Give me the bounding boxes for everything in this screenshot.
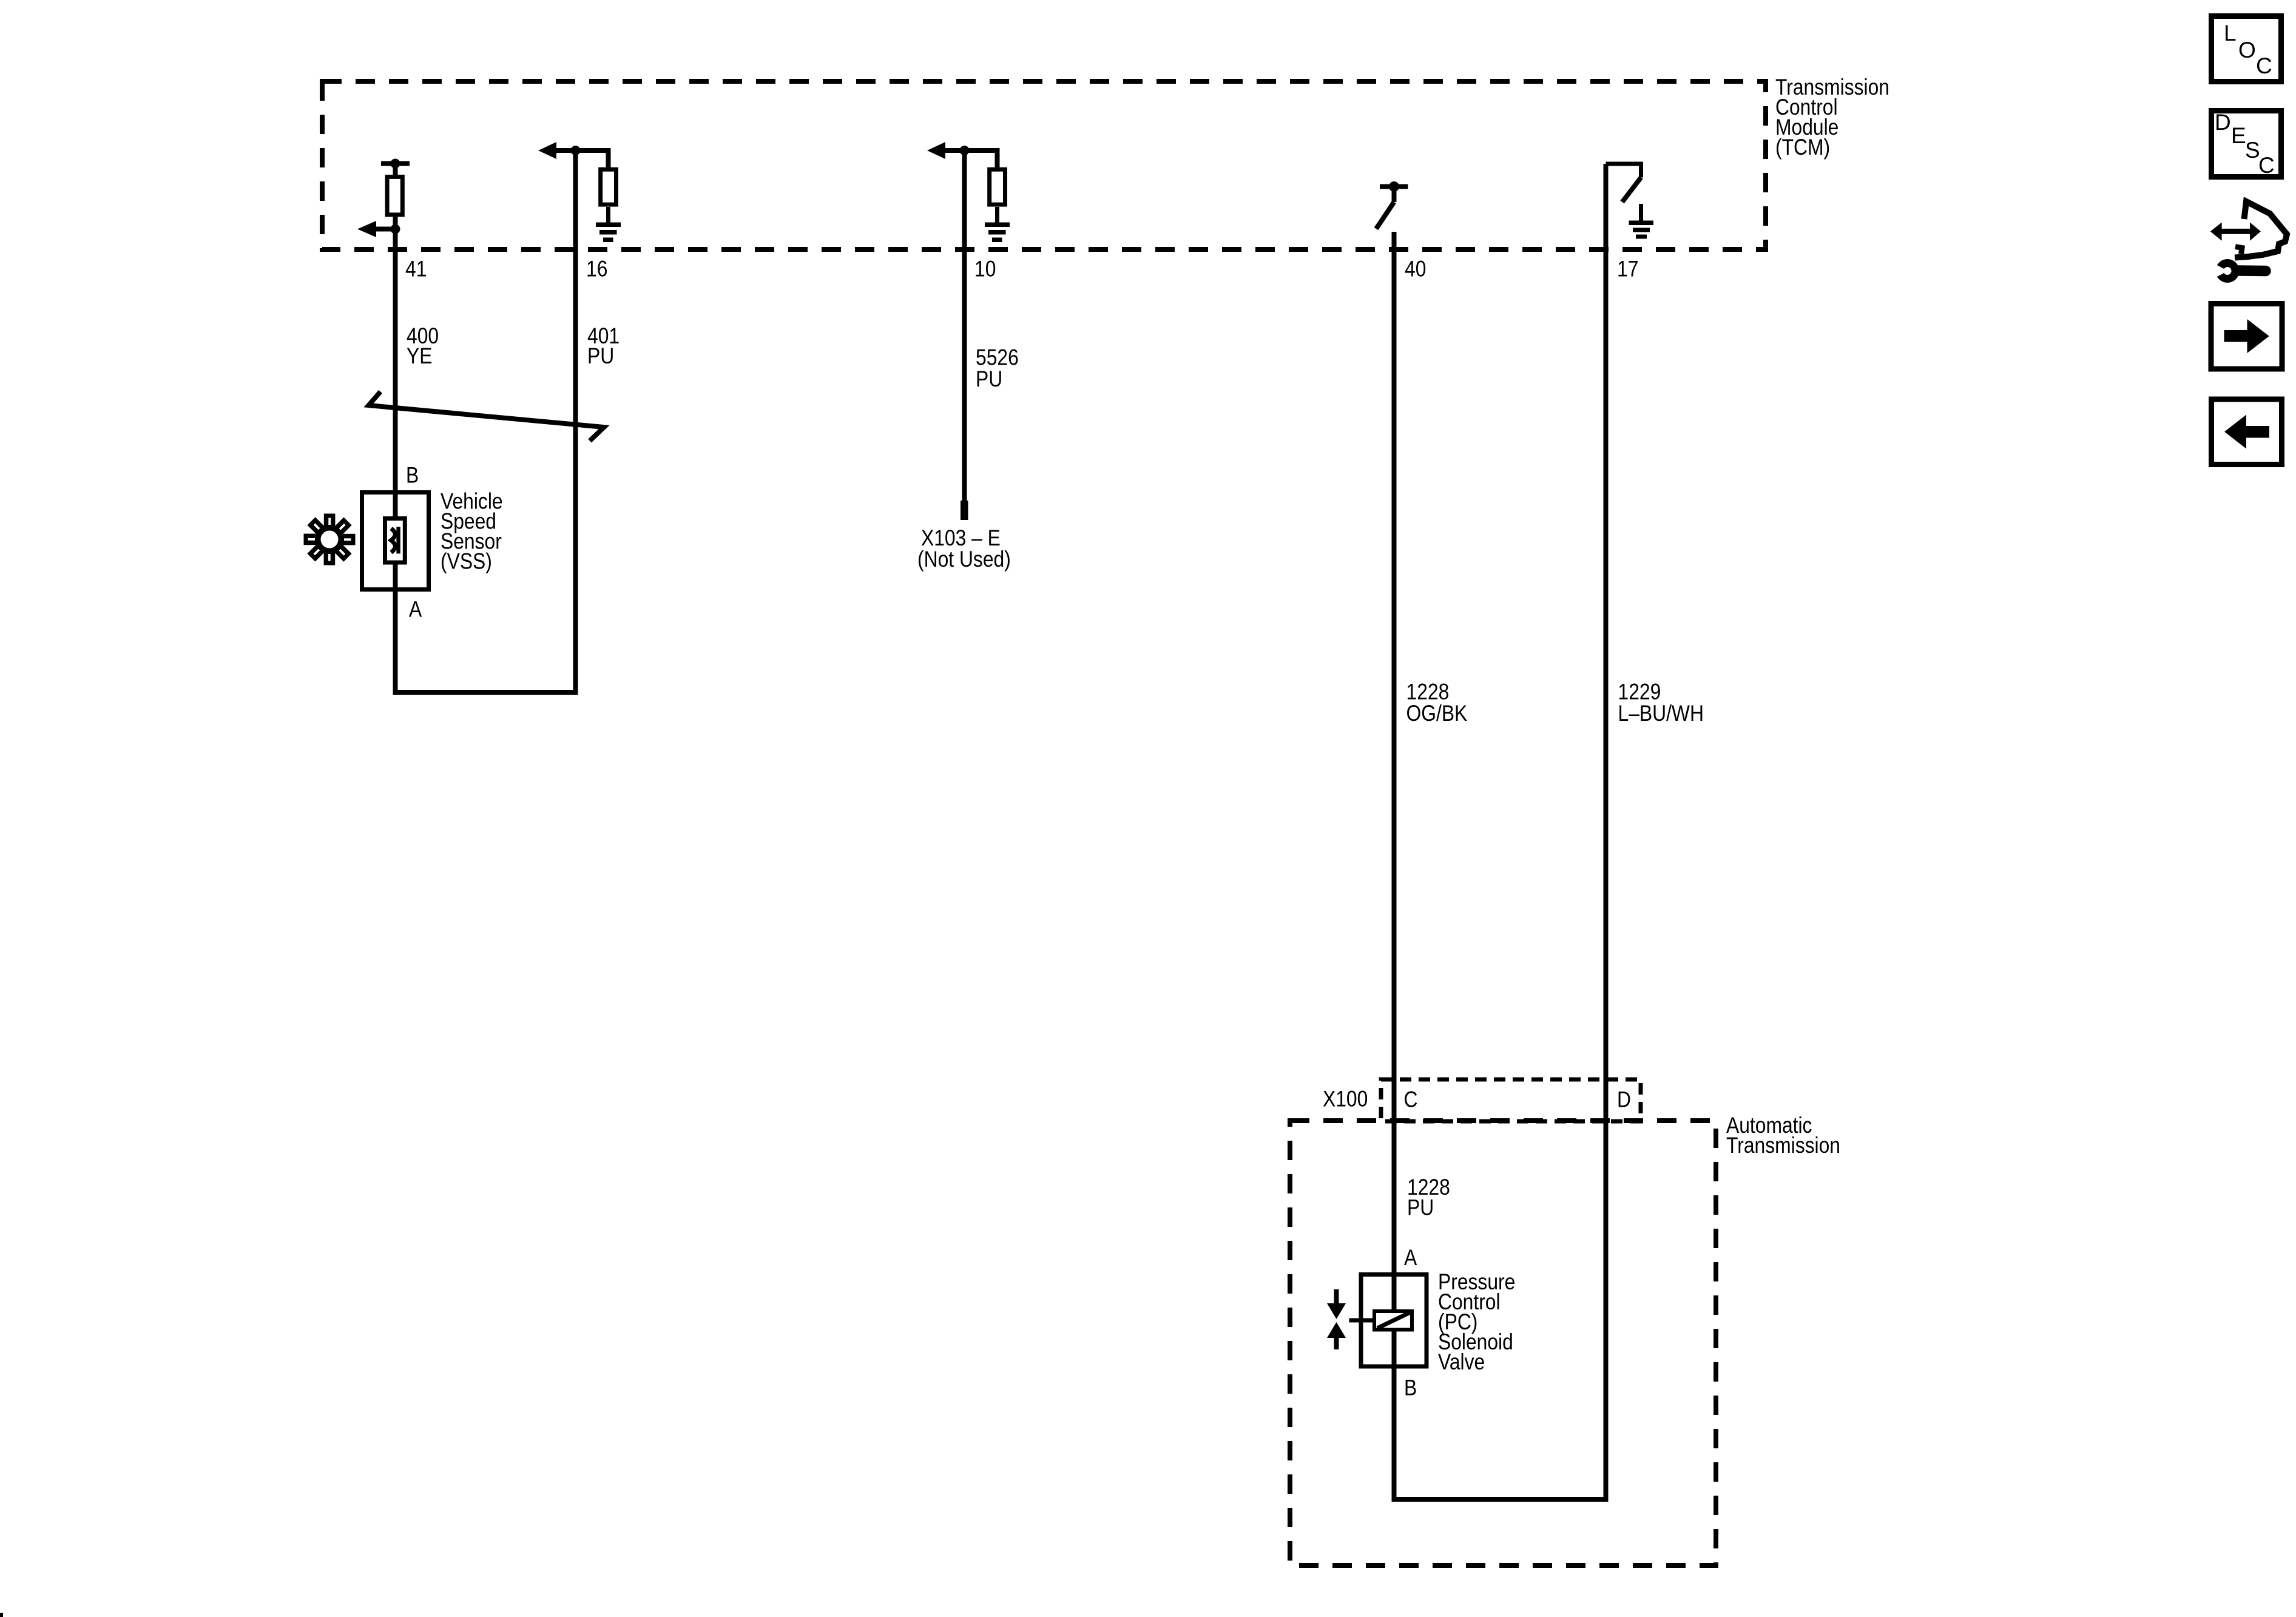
svg-text:YE: YE [407,344,432,369]
svg-text:17: 17 [1617,257,1638,282]
VSS sensor outer box [362,493,429,590]
ground symbol (TCM internal, pin 10) [985,223,1010,228]
pin 16 wire (TCM terminal 16 down, VSS return) [396,150,576,692]
svg-text:PU: PU [587,344,614,369]
svg-text:D: D [2215,110,2231,135]
switch blade pin 17 [1622,178,1641,203]
junction node on pin 41 [391,224,400,234]
ground symbol (TCM internal, pin 16) [596,223,621,228]
gear icon (vehicle speed rotor) [304,514,356,565]
svg-text:C: C [1404,1087,1418,1112]
svg-text:E: E [2231,123,2246,148]
svg-text:16: 16 [586,257,607,282]
wire stub dot to resistor [393,164,398,178]
resistor R (TCM internal, pin 16) [601,169,616,204]
svg-text:X100: X100 [1323,1087,1368,1112]
sidebar icon: LOC box [2212,16,2281,82]
svg-text:D: D [1617,1087,1631,1112]
ground symbol (TCM internal, pin 17) [1639,204,1643,223]
node: T-bar at top of pin 41 resistor [381,161,410,166]
sidebar icon: DESC box [2212,110,2281,178]
svg-text:PU: PU [1407,1195,1434,1220]
solenoid coil box [1374,1311,1412,1330]
pin 10 wire (TCM terminal 10 to unused connector cavity) [962,150,967,501]
svg-text:(TCM): (TCM) [1775,135,1830,160]
svg-text:A: A [1404,1246,1417,1271]
VSS coil squiggle [391,528,396,553]
svg-text:B: B [406,463,419,488]
svg-text:OG/BK: OG/BK [1406,701,1468,726]
branch wire to pull-up resistor, pin 16 [576,150,609,169]
sidebar icon: forward arrow box [2211,304,2282,370]
TCM label: Transmission Control Module (TCM) [1775,75,1889,160]
resistor R (TCM internal, pin 41) [387,177,402,215]
svg-text:Transmission: Transmission [1726,1133,1840,1158]
svg-text:B: B [1404,1376,1417,1400]
svg-text:O: O [2238,38,2256,62]
twisted pair marker across wires 400/401 [369,392,604,441]
coil diagonal [1377,1312,1410,1328]
VSS label: Vehicle Speed Sensor (VSS) [441,489,503,574]
svg-text:41: 41 [405,257,427,282]
junction node at pin 10 top [960,146,970,155]
label Pressure Control (PC) Solenoid Valve [1438,1270,1515,1375]
switch stub from node [1392,187,1397,203]
page artifact dot bottom-left [0,1613,3,1617]
svg-text:C: C [2256,53,2272,78]
TCM module dashed box [322,81,1766,249]
svg-text:C: C [2258,153,2275,178]
unused terminal stub X103-E [961,501,968,520]
pin 40 wire (TCM terminal 40 down to PC solenoid pin A) [1392,232,1397,1312]
pin 41 wire (terminal 41 of TCM down to VSS pin B) [393,229,398,491]
svg-text:(VSS): (VSS) [441,549,492,574]
svg-text:10: 10 [974,257,996,282]
resistor R (TCM internal, pin 10) [990,169,1005,204]
svg-text:(Not Used): (Not Used) [917,547,1011,572]
connector X100 dotted box [1381,1079,1641,1121]
svg-text:L–BU/WH: L–BU/WH [1618,701,1704,726]
svg-text:S: S [2245,138,2260,163]
pin 17 wire (PC solenoid low side return to TCM terminal 17) [1394,164,1606,1499]
switch blade (driver) pin 40 [1376,202,1394,229]
signal arrow at pin 16 [555,148,576,153]
svg-text:A: A [409,597,422,622]
svg-text:L: L [2224,21,2237,46]
branch wire to pull-up resistor, pin 10 [965,150,998,169]
Automatic Transmission dashed box [1290,1121,1716,1565]
VSS core bar [396,527,400,553]
wire resistor to junction [393,217,398,229]
valve symbol (two opposed arrows) [1334,1289,1339,1305]
junction node at pin 16 top [571,146,581,155]
svg-text:40: 40 [1405,257,1426,282]
PC solenoid outer box [1361,1275,1427,1367]
wire resistor to ground [995,207,999,223]
wire B into sensor [393,490,398,519]
node: T-bar at top of pin 40 switch [1380,184,1408,189]
signal arrow (to TCM logic) at pin 41 [374,227,396,232]
wire inner box to A [393,564,398,592]
wire resistor to ground [606,207,610,223]
svg-text:PU: PU [976,367,1002,392]
signal arrow at pin 10 [944,148,965,153]
sidebar icon: back arrow box [2212,399,2282,465]
svg-text:Valve: Valve [1438,1350,1485,1375]
coil left lead [1349,1318,1373,1323]
wire through solenoid box [1392,1272,1397,1312]
sidebar icon: service hand with double arrow and wrench [2210,201,2287,279]
switch top bar pin 17 [1606,164,1641,178]
VSS inner element box [385,519,405,563]
